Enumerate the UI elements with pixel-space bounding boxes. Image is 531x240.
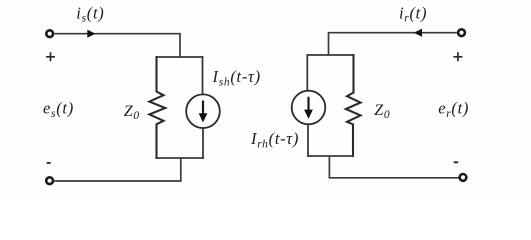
svg-text:is(t): is(t) [76, 3, 104, 24]
terminal: receiving-end bottom [460, 174, 467, 181]
current arrow i_s [87, 30, 95, 38]
terminal: sending-end top [46, 30, 53, 37]
current source Irh: circle [292, 91, 326, 125]
wire: sending top horizontal + feed down [54, 34, 180, 57]
current source Ish: top stub [202, 56, 204, 94]
current source Ish: bottom stub [202, 129, 204, 159]
wire: receiving bottom feed + horizontal [329, 156, 458, 178]
svg-text:ir(t): ir(t) [399, 3, 427, 24]
svg-text:Ish(t-τ): Ish(t-τ) [212, 67, 261, 88]
wire: receiving top horizontal + feed down [329, 33, 457, 55]
svg-text:er(t): er(t) [438, 99, 469, 120]
resistor Z0 left branch [149, 56, 165, 159]
wire: sending bottom feed + horizontal [54, 158, 181, 181]
wire: left box bottom edge [157, 157, 203, 159]
current arrow i_r [414, 29, 422, 37]
current source Ish: arrow [202, 101, 204, 115]
wire: left box top edge [157, 56, 203, 58]
current source Irh: arrow [307, 97, 309, 111]
plus sign sending [46, 52, 55, 61]
current source Irh: top stub [306, 54, 308, 90]
resistor Z0 right branch [346, 54, 361, 157]
minus sign sending [47, 162, 51, 164]
wire: right box top edge [307, 54, 353, 56]
terminal: receiving-end top [458, 29, 465, 36]
plus sign receiving [453, 52, 462, 61]
svg-text:Z0: Z0 [124, 103, 140, 122]
current source Irh: bottom stub [307, 125, 309, 157]
svg-text:es(t): es(t) [43, 99, 74, 120]
current source Ish: circle [186, 94, 220, 128]
svg-text:Z0: Z0 [374, 102, 390, 121]
wire: right box bottom edge [307, 155, 353, 157]
svg-text:Irh(t-τ): Irh(t-τ) [250, 129, 299, 150]
terminal: sending-end bottom [46, 177, 53, 184]
minus sign receiving [454, 161, 459, 163]
